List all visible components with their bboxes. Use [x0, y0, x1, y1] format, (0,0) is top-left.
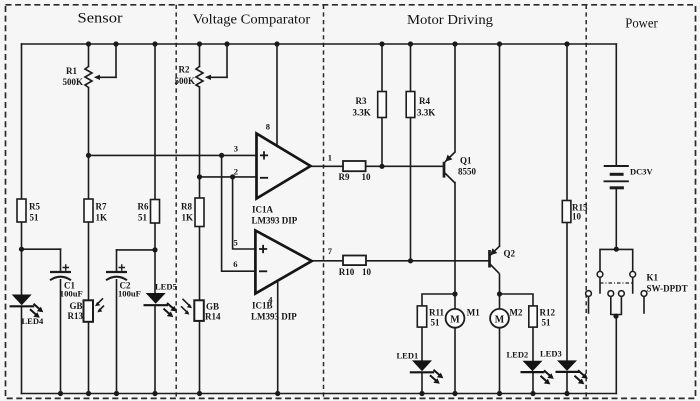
svg-text:LED1: LED1 [397, 351, 419, 361]
svg-text:1K: 1K [96, 213, 108, 223]
svg-text:R8: R8 [181, 202, 192, 212]
svg-text:500K: 500K [175, 76, 196, 86]
svg-text:1: 1 [328, 153, 332, 163]
svg-text:100uF: 100uF [118, 289, 141, 299]
svg-text:Power: Power [625, 16, 658, 31]
svg-text:R1: R1 [66, 66, 77, 76]
svg-text:1K: 1K [182, 213, 194, 223]
svg-text:R3: R3 [356, 96, 367, 106]
svg-text:K1: K1 [647, 273, 659, 283]
svg-text:Sensor: Sensor [78, 11, 123, 27]
svg-text:LM393 DIP: LM393 DIP [251, 312, 297, 322]
svg-text:Motor Driving: Motor Driving [407, 13, 493, 28]
svg-text:R12: R12 [540, 308, 556, 318]
svg-text:3.3K: 3.3K [353, 108, 371, 118]
svg-text:R9: R9 [339, 172, 350, 182]
svg-text:Q2: Q2 [504, 249, 516, 259]
svg-text:Voltage Comparator: Voltage Comparator [193, 13, 311, 28]
svg-text:GB: GB [206, 302, 219, 312]
svg-text:R14: R14 [205, 312, 221, 322]
svg-text:R7: R7 [96, 202, 107, 212]
svg-text:IC1A: IC1A [252, 205, 274, 215]
svg-text:10: 10 [572, 212, 582, 222]
svg-text:500K: 500K [63, 77, 84, 87]
svg-text:M: M [495, 314, 505, 325]
svg-text:LED4: LED4 [22, 316, 44, 326]
svg-text:2: 2 [234, 167, 238, 177]
svg-text:51: 51 [30, 213, 40, 223]
svg-text:51: 51 [431, 318, 441, 328]
svg-text:LED3: LED3 [540, 349, 562, 359]
svg-text:R4: R4 [419, 96, 430, 106]
svg-text:LM393 DIP: LM393 DIP [252, 216, 298, 226]
svg-text:4: 4 [268, 295, 273, 305]
svg-text:DC3V: DC3V [630, 167, 654, 177]
svg-text:5: 5 [234, 238, 238, 248]
svg-text:7: 7 [328, 246, 333, 256]
svg-text:GB: GB [70, 301, 83, 311]
svg-text:R11: R11 [429, 308, 445, 318]
svg-text:10: 10 [362, 172, 372, 182]
svg-text:R13: R13 [68, 311, 84, 321]
svg-text:R10: R10 [339, 267, 355, 277]
svg-text:SW-DPDT: SW-DPDT [647, 284, 688, 294]
svg-text:51: 51 [138, 213, 148, 223]
svg-text:M1: M1 [467, 308, 480, 318]
svg-text:LED5: LED5 [155, 282, 177, 292]
svg-text:3.3K: 3.3K [417, 108, 435, 118]
svg-text:51: 51 [542, 318, 552, 328]
svg-text:100uF: 100uF [60, 289, 83, 299]
svg-text:8550: 8550 [458, 167, 477, 177]
svg-text:M: M [450, 314, 460, 325]
svg-text:R5: R5 [29, 202, 40, 212]
svg-text:3: 3 [234, 144, 238, 154]
svg-text:8: 8 [266, 122, 270, 132]
svg-text:R2: R2 [179, 65, 190, 75]
svg-text:6: 6 [233, 259, 237, 269]
svg-text:10: 10 [362, 267, 372, 277]
svg-text:Q1: Q1 [460, 156, 472, 166]
svg-text:R6: R6 [138, 202, 149, 212]
svg-text:M2: M2 [510, 308, 523, 318]
svg-text:LED2: LED2 [507, 350, 529, 360]
